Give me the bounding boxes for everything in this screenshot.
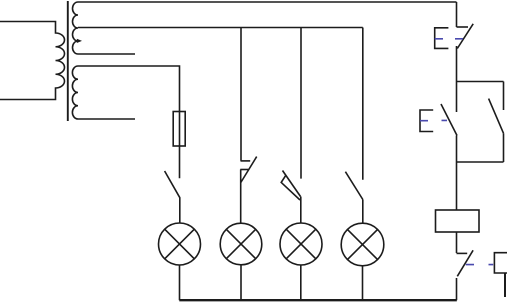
wire: contact KM to rejoin node <box>503 133 505 162</box>
pushbutton SB2 actuator bracket <box>420 110 433 132</box>
switch S1 blade <box>165 171 180 198</box>
wire: junction to holding-contact branch <box>457 81 504 83</box>
secondary tap arrow <box>77 39 82 43</box>
wire: SB1 to parallel junction <box>456 46 458 82</box>
lamp EL2 <box>220 223 262 265</box>
pushbutton SB3 dashed link <box>466 264 493 266</box>
lamp EL4 <box>341 223 384 266</box>
wire: lamp EL3 to bottom bus <box>300 265 302 300</box>
pushbutton SB1 fixed contact seat <box>457 26 469 28</box>
pushbutton SB1 blade <box>457 24 473 49</box>
wire: bottom bus <box>179 299 457 301</box>
transformer secondary winding 2 (lower) <box>72 66 78 119</box>
wire: secondary 2 top lead to fuse branch <box>78 66 180 178</box>
wire: SB2 to rejoin node <box>456 136 458 163</box>
wire: lamp EL4 to bottom bus <box>362 266 364 300</box>
transformer secondary winding 1 (upper, tapped) <box>73 2 78 54</box>
pushbutton SB3 actuator bracket <box>494 253 507 273</box>
switch S2 lower contact seat <box>240 169 248 171</box>
pushbutton SB3 blade <box>457 250 473 276</box>
contact KM blade <box>489 99 504 134</box>
wire: lamp EL1 to bottom bus <box>179 265 181 300</box>
wire: tap line feeding lamp branches 2,3,4 <box>78 27 363 29</box>
switch S3 blade with flag <box>281 171 300 201</box>
wire: SB3 to bottom bus <box>456 278 458 300</box>
pushbutton SB2 dashed link <box>420 119 447 121</box>
wire: switch S2 to lamp EL2 <box>240 170 242 224</box>
contact KM upper terminal <box>503 82 505 111</box>
lamp EL3 <box>280 223 322 265</box>
wire: coil to SB3 <box>456 232 458 253</box>
wire: rejoin horizontal <box>457 161 504 163</box>
wire: switch S1 to lamp EL1 <box>179 198 181 224</box>
wire: secondary 1 bottom stub (dead end) <box>78 53 135 55</box>
wire: lamp branch 3 drop <box>300 28 302 179</box>
wire: SB2 upper terminal <box>456 82 458 113</box>
switch S2 upper contact seat <box>241 160 251 162</box>
wire: rejoin node to coil <box>456 162 458 210</box>
lamp EL1 <box>159 223 201 265</box>
pushbutton SB2 blade <box>441 104 457 136</box>
transformer core <box>67 1 69 121</box>
switch S4 blade <box>345 172 362 200</box>
transformer T primary winding <box>0 22 65 100</box>
coil KM <box>436 210 480 232</box>
pushbutton SB3 fixed contact seat <box>457 252 468 254</box>
wire: lamp branch 4 drop <box>362 28 364 180</box>
wire: lamp branch 2 drop <box>240 28 242 161</box>
wire: top supply line from secondary 1 top to control branch <box>78 1 457 3</box>
wire: right edge stub <box>504 273 506 297</box>
wire: switch S4 to lamp EL4 <box>362 200 364 224</box>
pushbutton SB1 dashed link <box>435 38 463 40</box>
wire: secondary 2 bottom stub (dead end) <box>78 118 135 120</box>
wire: control branch drop from top line <box>456 2 458 27</box>
pushbutton SB1 actuator bracket <box>435 28 449 49</box>
switch S2 blade <box>241 157 257 183</box>
wire: lamp EL2 to bottom bus <box>240 265 242 300</box>
wire: switch S3 to lamp EL3 <box>300 197 302 224</box>
fuse FU <box>173 112 185 147</box>
